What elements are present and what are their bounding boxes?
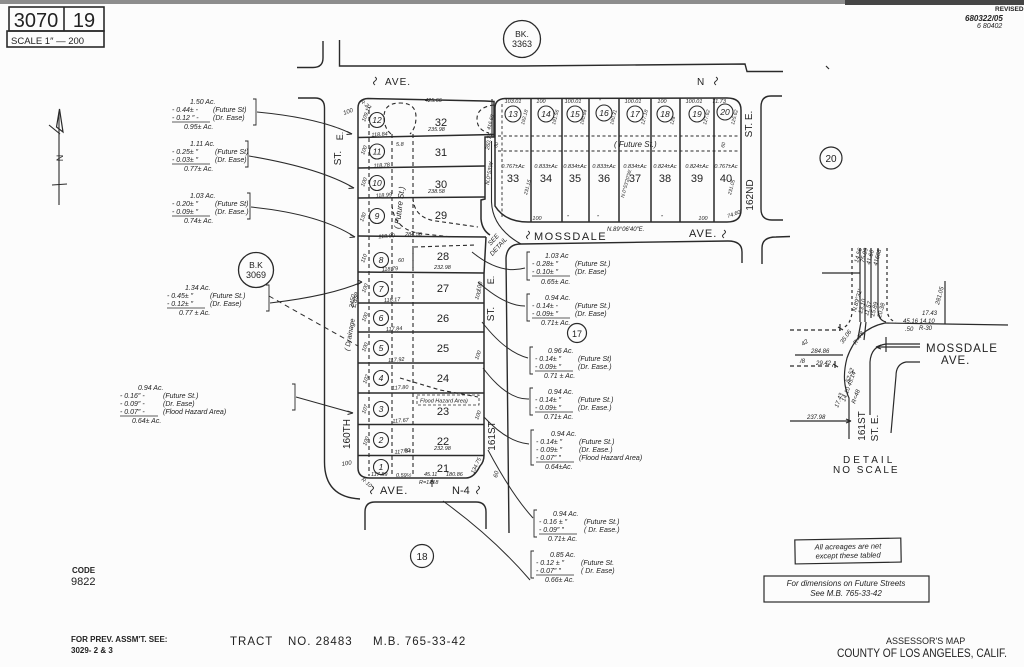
svg-text:15: 15 <box>570 109 580 119</box>
svg-text:ST.: ST. <box>333 151 344 165</box>
svg-text:18: 18 <box>416 552 428 563</box>
svg-text:( Future St.): ( Future St.) <box>614 140 657 149</box>
svg-text:TRACT: TRACT <box>230 636 273 648</box>
svg-text:AVE.: AVE. <box>941 355 970 367</box>
svg-text:33: 33 <box>507 173 519 185</box>
svg-text:1.03 Ac.: 1.03 Ac. <box>190 193 215 200</box>
svg-text:(Future St.): (Future St.) <box>584 519 619 526</box>
svg-text:1.03 Ac: 1.03 Ac <box>545 253 569 260</box>
svg-text:Flood Hazard Area): Flood Hazard Area) <box>420 399 468 405</box>
future street bend in lot 29 <box>413 198 478 227</box>
svg-text:FOR PREV. ASSM'T. SEE:: FOR PREV. ASSM'T. SEE: <box>71 635 167 644</box>
lot numbers 21-32 <box>435 117 449 475</box>
row line 25/24 <box>358 362 484 364</box>
svg-text:- 0.07″ -: - 0.07″ - <box>120 409 145 416</box>
svg-text:180.86: 180.86 <box>446 472 464 478</box>
svg-text:(Flood Hazard Area): (Flood Hazard Area) <box>163 409 226 416</box>
svg-text:117.89: 117.89 <box>371 472 387 478</box>
detail labels <box>799 247 946 421</box>
annotation F (0.94) <box>534 510 620 543</box>
svg-text:- 0.09± ″: - 0.09± ″ <box>535 364 562 371</box>
svg-text:″: ″ <box>599 99 602 105</box>
dashed interior lines of left column <box>369 103 494 476</box>
svg-text:39: 39 <box>691 173 703 185</box>
svg-text:20: 20 <box>719 107 730 117</box>
flood hazard dashed line lot 24/23 <box>400 378 478 397</box>
svg-text:(Future St): (Future St) <box>213 107 246 114</box>
svg-text:232.98: 232.98 <box>433 446 452 452</box>
row line 30/29 <box>358 197 485 198</box>
svg-text:284.56: 284.56 <box>404 232 423 238</box>
svg-text:R-30: R-30 <box>919 326 933 332</box>
svg-text:See M.B. 765-33-42: See M.B. 765-33-42 <box>810 589 882 598</box>
circle 20 <box>820 147 842 169</box>
svg-text:0.65± Ac.: 0.65± Ac. <box>541 279 570 286</box>
row line 26/25 <box>358 331 484 333</box>
circle 17 (middle) <box>568 324 587 343</box>
svg-text:100: 100 <box>341 460 353 468</box>
row line 22/21 <box>358 455 484 457</box>
svg-text:- 0.45± ″: - 0.45± ″ <box>167 293 194 300</box>
svg-text:0.833±Ac: 0.833±Ac <box>592 164 615 170</box>
svg-text:31: 31 <box>435 147 447 159</box>
162ND ST E <box>761 96 783 220</box>
svg-text:- 0.09± ″: - 0.09± ″ <box>532 311 559 318</box>
svg-text:127.62: 127.62 <box>702 109 712 126</box>
svg-text:28: 28 <box>437 251 449 263</box>
svg-text:100: 100 <box>343 108 355 117</box>
svg-text:0.94 Ac.: 0.94 Ac. <box>548 389 573 396</box>
note box 2 <box>764 576 929 602</box>
circled numbers 13-20 <box>505 104 733 122</box>
svg-text:R·10: R·10 <box>360 477 374 490</box>
svg-text:(Future St.): (Future St.) <box>163 393 198 400</box>
svg-text:117.80: 117.80 <box>392 385 410 392</box>
south blocks below Ave N-4 <box>365 502 486 530</box>
svg-text:- 0.09± ″: - 0.09± ″ <box>172 209 199 216</box>
svg-text:- 0.25± ″: - 0.25± ″ <box>172 149 199 156</box>
29.42 dashes <box>790 365 833 367</box>
svg-text:110: 110 <box>360 253 369 264</box>
row line 31/30 <box>358 166 485 168</box>
svg-text:0.77± Ac.: 0.77± Ac. <box>184 166 213 173</box>
svg-text:281.05: 281.05 <box>935 286 946 307</box>
svg-text:MOSSDALE: MOSSDALE <box>926 343 998 355</box>
svg-text:R=1318: R=1318 <box>419 480 439 486</box>
svg-text:10: 10 <box>372 178 382 188</box>
horizontal leader top left <box>822 272 860 274</box>
svg-text:232.98: 232.98 <box>433 265 452 271</box>
svg-text:117.84: 117.84 <box>386 326 403 333</box>
svg-text:(Future St.): (Future St.) <box>210 293 245 300</box>
svg-text:except these tabled: except these tabled <box>815 550 881 560</box>
svg-text:(Dr. Ease.): (Dr. Ease.) <box>579 447 613 454</box>
svg-text:190.94: 190.94 <box>579 109 589 126</box>
svg-text:29: 29 <box>435 210 447 222</box>
svg-text:0.95± Ac.: 0.95± Ac. <box>184 124 213 131</box>
svg-text:118.79: 118.79 <box>382 266 399 273</box>
svg-text:162ND: 162ND <box>745 179 756 210</box>
annotation D (0.94) <box>530 388 613 421</box>
svg-text:- 0.10± ″: - 0.10± ″ <box>532 269 559 276</box>
svg-text:100: 100 <box>362 435 371 447</box>
svg-text:100: 100 <box>698 216 708 222</box>
svg-text:6 80402: 6 80402 <box>977 23 1002 30</box>
svg-text:12: 12 <box>372 115 382 125</box>
svg-text:0.767±Ac: 0.767±Ac <box>714 164 737 170</box>
svg-text:190.31: 190.31 <box>609 109 619 126</box>
big corner curve <box>844 323 885 439</box>
svg-text:0.77 ± Ac.: 0.77 ± Ac. <box>179 310 210 317</box>
svg-text:60: 60 <box>398 258 405 264</box>
svg-text:( Future St.): ( Future St.) <box>392 186 406 230</box>
svg-text:100.01: 100.01 <box>565 99 582 105</box>
svg-text:COUNTY OF LOS ANGELES, CALIF.: COUNTY OF LOS ANGELES, CALIF. <box>837 646 1007 660</box>
svg-text:- 0.12 ± ″: - 0.12 ± ″ <box>536 560 565 567</box>
annotation C (0.96) <box>530 347 612 380</box>
svg-text:100: 100 <box>532 216 542 222</box>
top-left dashed leader <box>790 329 840 331</box>
title box 3070/19 <box>7 7 104 47</box>
top street (Ave N) <box>297 40 783 72</box>
svg-text:680322/05: 680322/05 <box>965 14 1003 23</box>
bottom dims right block <box>532 215 708 222</box>
circled lot numbers 1-12 <box>370 113 389 475</box>
svg-text:3: 3 <box>379 404 384 414</box>
svg-text:(Future St.): (Future St.) <box>578 397 613 404</box>
svg-text:0.833±Ac: 0.833±Ac <box>534 164 557 170</box>
svg-text:118.84: 118.84 <box>371 131 388 138</box>
svg-text:- 0.44± -: - 0.44± - <box>172 107 199 114</box>
BK 3363 circle <box>504 21 541 58</box>
svg-text:100.01: 100.01 <box>686 99 703 105</box>
svg-text:29.42: 29.42 <box>815 361 832 367</box>
left annotation 5 (0.94 Ac flood) <box>120 384 295 425</box>
svg-text:- 0.20± ″: - 0.20± ″ <box>172 201 199 208</box>
svg-text:35: 35 <box>569 173 581 185</box>
rotated small dims along left edge <box>359 99 495 490</box>
svg-text:127.18: 127.18 <box>640 109 650 126</box>
svg-text:23: 23 <box>437 406 449 418</box>
svg-text:.50: .50 <box>905 327 914 333</box>
svg-text:(Dr. Ease.): (Dr. Ease.) <box>578 405 612 412</box>
svg-text:(Dr. Ease.): (Dr. Ease.) <box>578 364 612 371</box>
right lot block outline <box>495 98 741 222</box>
inner corner 1 <box>870 344 920 415</box>
svg-text:20: 20 <box>825 154 837 165</box>
svg-text:60: 60 <box>720 141 727 148</box>
svg-text:NO SCALE: NO SCALE <box>833 465 900 476</box>
svg-text:191.56: 191.56 <box>551 109 561 126</box>
svg-text:160TH: 160TH <box>342 419 353 449</box>
svg-text:ASSESSOR'S MAP: ASSESSOR'S MAP <box>886 636 965 646</box>
svg-text:N.89°06′40″E.: N.89°06′40″E. <box>607 227 644 233</box>
lot dimension texts left column <box>371 98 464 486</box>
svg-text:238.58: 238.58 <box>427 189 446 195</box>
inner corner 2 <box>891 362 920 433</box>
svg-text:ST.: ST. <box>486 307 497 321</box>
svg-text:- 0.07″ ″: - 0.07″ ″ <box>536 568 561 575</box>
svg-text:0.71 ± Ac.: 0.71 ± Ac. <box>544 373 575 380</box>
svg-text:1: 1 <box>379 462 384 472</box>
284.86 line <box>795 354 843 356</box>
svg-text:16: 16 <box>599 108 609 118</box>
svg-text:(Flood Hazard Area): (Flood Hazard Area) <box>579 455 642 462</box>
svg-text:- 0.03± ″: - 0.03± ″ <box>172 157 199 164</box>
middle leader curves <box>443 252 533 580</box>
svg-text:E.: E. <box>335 132 345 141</box>
svg-text:/8: /8 <box>799 359 806 365</box>
svg-text:CODE: CODE <box>72 566 96 575</box>
svg-text:9: 9 <box>375 211 380 221</box>
svg-text:36: 36 <box>598 173 610 185</box>
left annotation 1 (1.50 Ac) <box>172 99 256 131</box>
svg-text:11: 11 <box>373 147 382 157</box>
extra short verticals below curve <box>858 322 861 338</box>
svg-text:38: 38 <box>659 173 671 185</box>
svg-text:17: 17 <box>572 329 582 339</box>
svg-text:237.98: 237.98 <box>806 415 826 421</box>
svg-text:MOSSDALE: MOSSDALE <box>534 231 607 243</box>
svg-text:0.71± Ac.: 0.71± Ac. <box>541 320 570 327</box>
svg-text:19: 19 <box>692 109 702 119</box>
BK 3069 circle <box>239 253 274 288</box>
centerline tick <box>885 337 887 352</box>
svg-text:0.94 Ac.: 0.94 Ac. <box>553 511 578 518</box>
svg-text:100.01: 100.01 <box>625 99 642 105</box>
Mossdale south side / 161st east corner <box>506 237 790 534</box>
svg-text:3363: 3363 <box>512 39 532 49</box>
svg-text:60: 60 <box>493 141 500 148</box>
svg-text:SCALE 1″ — 200: SCALE 1″ — 200 <box>11 36 84 47</box>
svg-text:128: 128 <box>669 116 677 126</box>
svg-text:27: 27 <box>437 283 449 295</box>
svg-text:- 0.16 ± ″: - 0.16 ± ″ <box>539 519 568 526</box>
svg-text:117.54: 117.54 <box>394 449 411 456</box>
row line 28/27 <box>358 272 484 273</box>
svg-text:BK.: BK. <box>515 29 529 39</box>
row line 32/31 <box>358 135 494 138</box>
svg-text:(Future St): (Future St) <box>215 201 248 208</box>
svg-text:5.8: 5.8 <box>396 142 405 148</box>
svg-text:100: 100 <box>360 176 369 188</box>
svg-text:- 0.09″ -: - 0.09″ - <box>120 401 145 408</box>
svg-text:25: 25 <box>437 343 449 355</box>
svg-text:6: 6 <box>379 313 384 323</box>
svg-text:118.17: 118.17 <box>384 297 402 304</box>
svg-text:For dimensions on Future Stree: For dimensions on Future Streets <box>787 579 906 588</box>
svg-text:118.78: 118.78 <box>373 162 391 169</box>
svg-text:E.: E. <box>486 276 496 285</box>
svg-text:(Dr. Ease): (Dr. Ease) <box>213 115 245 122</box>
circle 18 <box>411 545 434 568</box>
svg-text:102: 102 <box>362 374 371 385</box>
svg-text:100: 100 <box>360 144 369 156</box>
svg-text:N: N <box>697 77 704 88</box>
left annotation 4 (1.34 Ac) <box>167 285 269 317</box>
svg-text:3069: 3069 <box>246 270 266 280</box>
svg-text:0.71± Ac.: 0.71± Ac. <box>548 536 577 543</box>
svg-text:0.64± Ac.: 0.64± Ac. <box>132 418 161 425</box>
svg-text:0.74± Ac.: 0.74± Ac. <box>184 218 213 225</box>
annotation A (1.03) <box>527 252 610 286</box>
svg-text:- 0.28± ″: - 0.28± ″ <box>532 261 559 268</box>
svg-text:17.43: 17.43 <box>922 311 938 317</box>
svg-text:117.67: 117.67 <box>392 418 410 425</box>
svg-text:24: 24 <box>437 373 449 385</box>
svg-text:N.0°53′W: N.0°53′W <box>485 161 495 186</box>
acreage row <box>501 164 737 170</box>
left lot column outline <box>358 99 521 479</box>
Mossdale Ave labels <box>527 231 530 239</box>
left leader curves <box>249 112 362 415</box>
svg-text:9822: 9822 <box>71 576 95 588</box>
annotation B (0.94) <box>527 294 610 327</box>
annotation E (0.94 flood) <box>531 430 642 471</box>
svg-text:″: ″ <box>567 215 570 221</box>
svg-text:284.86: 284.86 <box>810 349 830 355</box>
note box 1 <box>795 538 901 564</box>
svg-text:M.B. 765-33-42: M.B. 765-33-42 <box>373 636 466 648</box>
svg-text:″: ″ <box>661 215 664 221</box>
svg-text:(Dr. Ease): (Dr. Ease) <box>163 401 195 408</box>
Flood Hazard Area box (lot 23) <box>417 395 479 405</box>
svg-text:0.64±Ac.: 0.64±Ac. <box>545 464 573 471</box>
svg-text:0.824±Ac: 0.824±Ac <box>653 164 676 170</box>
north arrow <box>49 109 67 205</box>
detail drawing (right) <box>790 248 1008 439</box>
svg-text:1.34 Ac.: 1.34 Ac. <box>185 285 210 292</box>
svg-text:- 0.09± ″: - 0.09± ″ <box>536 447 563 454</box>
svg-text:34: 34 <box>540 173 552 185</box>
row line 27/26 <box>358 302 484 304</box>
scan top bar <box>0 0 1024 4</box>
svg-text:- 0.09″ ″: - 0.09″ ″ <box>539 527 564 534</box>
svg-text:″: ″ <box>597 215 600 221</box>
svg-text:7: 7 <box>379 284 384 294</box>
svg-text:0.85 Ac.: 0.85 Ac. <box>550 552 575 559</box>
svg-text:3029- 2 & 3: 3029- 2 & 3 <box>71 646 113 655</box>
svg-text:235.98: 235.98 <box>427 127 446 133</box>
svg-text:13: 13 <box>508 109 518 119</box>
top dims row <box>505 99 727 105</box>
svg-text:0.834±Ac: 0.834±Ac <box>563 164 586 170</box>
svg-text:425.66: 425.66 <box>425 98 443 104</box>
svg-text:0.824±Ac: 0.824±Ac <box>685 164 708 170</box>
svg-text:(Dr. Ease): (Dr. Ease) <box>210 301 242 308</box>
half bulb right of lot 32 <box>477 105 494 133</box>
svg-text:B.K: B.K <box>249 260 263 270</box>
svg-text:5: 5 <box>379 343 384 353</box>
svg-text:- 0.14± -: - 0.14± - <box>532 303 559 310</box>
svg-text:- 0.09± ″: - 0.09± ″ <box>535 405 562 412</box>
svg-text:N-4: N-4 <box>452 485 470 497</box>
row line 29/28 <box>358 236 486 237</box>
row line 24/23 <box>358 392 484 394</box>
svg-text:118.80: 118.80 <box>378 233 396 240</box>
svg-text:AVE.: AVE. <box>385 77 411 88</box>
svg-text:0.94 Ac.: 0.94 Ac. <box>545 295 570 302</box>
svg-text:(Dr. Ease): (Dr. Ease) <box>575 269 607 276</box>
dashed verticals <box>842 248 852 328</box>
svg-text:100: 100 <box>657 99 667 105</box>
svg-text:AVE.: AVE. <box>380 485 408 497</box>
future st dashed strip (right block) <box>498 104 740 219</box>
svg-text:(Future St.: (Future St. <box>581 560 614 567</box>
lot numbers 33-40 <box>507 173 732 185</box>
svg-text:( Dr. Ease.): ( Dr. Ease.) <box>584 527 620 534</box>
svg-text:0.71± Ac.: 0.71± Ac. <box>544 414 573 421</box>
svg-text:161ST: 161ST <box>857 411 868 440</box>
cul-de-sac bulb lot 32 <box>384 103 416 134</box>
svg-text:1.50 Ac.: 1.50 Ac. <box>190 99 215 106</box>
svg-text:- 0.07″ ″: - 0.07″ ″ <box>536 455 561 462</box>
svg-text:- 0.14± ″: - 0.14± ″ <box>535 356 562 363</box>
svg-text:0.767±Ac: 0.767±Ac <box>501 164 524 170</box>
svg-text:ST. E.: ST. E. <box>744 111 755 138</box>
svg-text:0.96 Ac.: 0.96 Ac. <box>548 348 573 355</box>
svg-text:3070: 3070 <box>14 10 59 32</box>
svg-text:NO. 28483: NO. 28483 <box>288 636 353 648</box>
svg-text:17: 17 <box>630 109 640 119</box>
svg-text:0.66± Ac.: 0.66± Ac. <box>545 577 574 584</box>
svg-text:100: 100 <box>474 409 483 421</box>
svg-text:26: 26 <box>437 313 449 325</box>
svg-text:14: 14 <box>541 109 551 119</box>
svg-text:- 0.14± ″: - 0.14± ″ <box>535 397 562 404</box>
svg-text:- 0.16″ -: - 0.16″ - <box>120 393 145 400</box>
svg-text:(Future St.): (Future St.) <box>579 439 614 446</box>
svg-text:(Future St): (Future St) <box>578 356 611 363</box>
row line 23/22 <box>358 424 484 426</box>
svg-text:( Dr. Ease): ( Dr. Ease) <box>581 568 615 575</box>
svg-text:103.01: 103.01 <box>505 99 522 105</box>
left annotation 3 (1.03 Ac) <box>172 193 250 225</box>
svg-text:8: 8 <box>379 255 384 265</box>
237.98 line <box>790 419 851 423</box>
svg-text:AVE.: AVE. <box>689 228 717 240</box>
svg-text:- 0.12 ″ -: - 0.12 ″ - <box>172 115 199 122</box>
svg-text:(Future St.): (Future St.) <box>575 261 610 268</box>
svg-text:100: 100 <box>536 99 546 105</box>
rotated dims on dividers <box>486 109 740 199</box>
svg-text:- 0.12± ″: - 0.12± ″ <box>167 301 194 308</box>
svg-text:45.11: 45.11 <box>424 472 437 478</box>
281.05 line <box>944 281 946 324</box>
svg-text:0.59½: 0.59½ <box>396 472 412 479</box>
svg-text:100: 100 <box>361 282 370 294</box>
svg-text:4: 4 <box>379 373 384 383</box>
svg-text:18: 18 <box>660 109 670 119</box>
svg-text:- 0.14± ″: - 0.14± ″ <box>536 439 563 446</box>
svg-text:117.92: 117.92 <box>388 357 405 364</box>
annotation G (0.85) <box>531 551 615 584</box>
svg-text:19: 19 <box>73 10 95 32</box>
svg-text:1.11 Ac.: 1.11 Ac. <box>190 141 215 148</box>
svg-text:(Dr. Ease): (Dr. Ease) <box>575 311 607 318</box>
svg-text:0.94 Ac.: 0.94 Ac. <box>138 385 163 392</box>
svg-text:REVISED: REVISED <box>995 6 1024 13</box>
svg-text:42: 42 <box>801 339 810 348</box>
svg-text:71.73: 71.73 <box>712 99 727 105</box>
svg-text:(Dr. Ease): (Dr. Ease) <box>215 157 247 164</box>
svg-text:2: 2 <box>378 435 384 445</box>
svg-text:130: 130 <box>359 211 368 223</box>
solid verticals <box>859 248 861 322</box>
svg-text:R=48: R=48 <box>851 388 862 404</box>
svg-text:N: N <box>55 155 65 162</box>
left annotation 2 (1.11 Ac) <box>172 141 248 173</box>
